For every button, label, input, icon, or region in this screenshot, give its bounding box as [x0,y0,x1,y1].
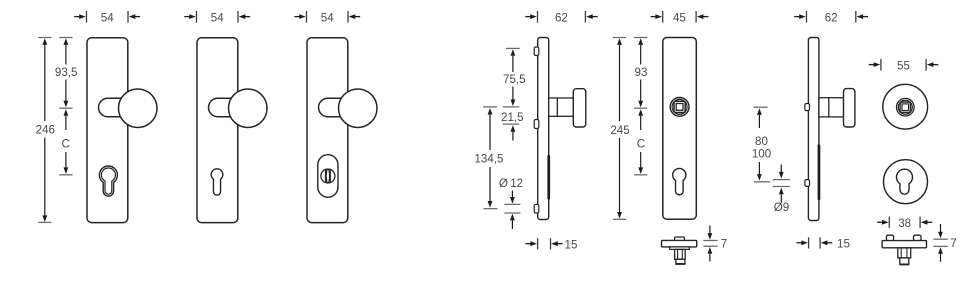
rosette fixing - head bar [882,241,926,248]
knob rose with square spindle front plate [670,98,689,117]
dimension 62 depth side view 2 [794,11,868,24]
knob plate 3 [339,89,378,128]
dimension 38 rosette fixing [877,217,932,231]
dimension 54 width plate 2 [184,11,250,24]
svg-text:134,5: 134,5 [474,153,503,166]
svg-text:246: 246 [36,124,55,137]
keyhole euro profile front plate [673,168,686,194]
svg-text:54: 54 [101,11,114,24]
fixing bolt under front plate - tip [676,259,686,264]
screw head bottom side view 2 [805,180,810,187]
knob stem plate 3 [319,98,346,116]
fixing bolt under front plate - collar [670,247,690,250]
knob rosette R1 (round) [883,84,928,129]
dimension 93 top to rose axis front plate [634,38,647,109]
svg-text:21,5: 21,5 [501,111,524,124]
svg-text:80: 80 [755,135,768,148]
knob head side view 1 [573,89,586,127]
dimension 21,5 knob axis to middle screw [501,107,524,141]
svg-text:7: 7 [950,237,956,250]
dimension C knob axis to cylinder axis [59,109,72,175]
keyhole euro profile plate 1 inner [101,168,115,194]
svg-text:93: 93 [635,66,648,79]
svg-text:15: 15 [837,238,850,251]
key rosette R2 (round, euro profile) [884,160,928,204]
dimension 75,5 screw to knob axis [503,48,526,106]
dimension 93,5 top to knob axis [55,38,78,109]
dimension diameter 9 bottom screw side view 2 [773,165,790,215]
svg-text:Ø9: Ø9 [774,201,789,214]
svg-text:38: 38 [898,217,911,230]
svg-text:100: 100 [752,148,771,161]
dimension 7 head thickness bolt 1 [703,226,727,262]
svg-text:62: 62 [825,11,838,24]
rosette fixing - threaded shank [898,248,911,258]
screw head top side view 1 [534,47,539,56]
dimension 134,5 knob axis to bottom screw [474,107,503,209]
rosette fixing - left cap [886,235,893,240]
dimension 54 width plate 1 [74,11,140,24]
plate P3 (plate with security rosette) [307,38,348,223]
dimension 80 / 100 screw distance [752,107,771,182]
knob stem side view 2 [819,98,844,117]
svg-text:C: C [62,137,70,150]
screw head middle side view 1 [534,120,539,129]
dimension 45 width front plate [651,11,709,24]
knob plate 2 [229,89,268,128]
svg-text:7: 7 [721,238,727,251]
svg-text:75,5: 75,5 [503,73,526,86]
svg-text:62: 62 [555,11,568,24]
svg-text:C: C [637,138,645,151]
svg-text:Ø 12: Ø 12 [499,177,523,190]
knob head side view 2 [844,89,855,127]
svg-text:15: 15 [565,239,578,252]
knob rose with square spindle rosette R1 [897,98,915,116]
cylinder cover circle plate 3 [321,169,335,183]
screw head top side view 2 [805,104,810,111]
fixing bolt under front plate - head bar [662,240,697,247]
cylinder protrusion side view 2 [818,144,821,200]
svg-text:54: 54 [211,11,224,24]
keyhole euro profile plate 1 outer [99,166,117,196]
dimension diameter 12 bottom screw [499,177,523,229]
dimension 15 plate thickness side view 1 [525,238,577,251]
svg-text:54: 54 [321,11,334,24]
cylinder protrusion side view 1 [547,155,550,200]
security rosette stadium plate 3 [318,155,338,198]
rosette fixing - right cap [914,235,922,240]
svg-text:45: 45 [673,11,686,24]
dimension 246 overall height [36,38,55,223]
front plate F1 (45 mm, rosette version) [663,38,697,220]
keyhole euro profile plate 2 [211,169,223,195]
knob stem plate 1 [99,98,126,116]
side view plate S2 [808,38,819,221]
side view plate S1 [538,38,549,220]
knob plate 1 [119,89,158,128]
plate P2 (plate with single-outline euro keyhole) [197,38,238,223]
dimension 7 head thickness bolt 2 [934,224,957,262]
dimension C front plate [634,109,647,175]
rosette fixing - tip [900,258,910,265]
svg-text:93,5: 93,5 [55,66,78,79]
fixing bolt under front plate - cap [675,237,685,241]
keyhole euro profile rosette R2 [897,169,913,194]
knob stem plate 2 [209,98,236,116]
dimension 15 plate thickness side view 2 [796,237,850,250]
fixing bolt under front plate - threaded shank [675,249,686,259]
svg-text:245: 245 [610,124,629,137]
dimension 245 overall height front plate [610,38,629,220]
dimension 62 depth side view 1 [525,11,597,24]
dimension 55 rosette diameter [869,59,939,73]
screw head bottom side view 1 [534,204,539,213]
svg-text:55: 55 [897,59,910,72]
dimension 54 width plate 3 [294,11,360,24]
plate P1 (security plate, profile cylinder, double outline) [87,38,128,223]
knob stem side view 1 [549,98,574,116]
